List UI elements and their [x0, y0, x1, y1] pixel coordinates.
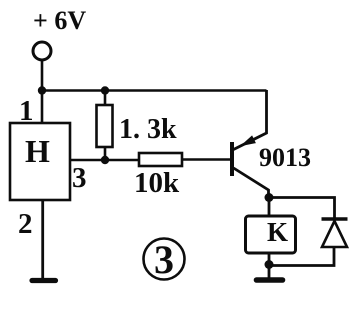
svg-text:1. 3k: 1. 3k [119, 114, 177, 145]
svg-text:10k: 10k [134, 167, 180, 199]
node junction D emitter [265, 193, 274, 202]
resistor R1 1.3k [97, 105, 113, 147]
ground left [32, 278, 56, 283]
wire R2 to base [182, 158, 231, 161]
resistor R2 10k [139, 153, 182, 166]
wire H pin3 to R2 [70, 159, 140, 162]
svg-text:3: 3 [154, 237, 174, 282]
hall sensor H [10, 123, 70, 200]
node junction B [101, 86, 109, 94]
svg-text:H: H [25, 133, 50, 169]
wire emitter node to diode top [269, 198, 335, 220]
svg-text:1: 1 [19, 95, 34, 127]
diode D1 [322, 219, 348, 247]
wire top bus [42, 89, 267, 92]
wire diode bottom to node E [269, 247, 334, 266]
ground right [257, 265, 283, 281]
wire R1 bottom to node C [104, 147, 107, 160]
relay K [246, 216, 296, 253]
wire relay K to node E [268, 253, 271, 266]
figure number 3 [144, 237, 185, 282]
svg-text:K: K [267, 217, 288, 247]
node junction E [265, 260, 274, 269]
wire emitter node to relay K [268, 198, 271, 218]
svg-text:+ 6V: + 6V [33, 6, 86, 35]
terminal +6V [33, 42, 51, 60]
svg-text:3: 3 [72, 162, 87, 194]
wire terminal to pin1 [41, 60, 44, 123]
wire B to R1 top [104, 91, 107, 107]
svg-text:2: 2 [18, 208, 33, 240]
node junction A [38, 86, 46, 94]
wire pin2 to ground [41, 200, 44, 278]
node junction C [101, 156, 109, 164]
svg-text:9013: 9013 [259, 143, 311, 172]
transistor Q1 9013 [232, 90, 269, 198]
